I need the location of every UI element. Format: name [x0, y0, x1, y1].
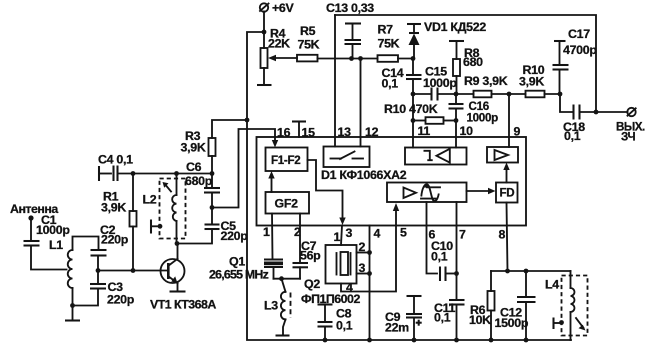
svg-text:4: 4	[374, 227, 381, 241]
Q2 pin 4 wire to pin 5	[341, 226, 396, 295]
wire supply rail left/down to bottom rail	[247, 32, 571, 340]
wire pin 7	[456, 202, 458, 300]
capacitor C4	[98, 153, 133, 182]
svg-text:15: 15	[302, 126, 316, 140]
wire R5 to R7	[318, 58, 378, 60]
arrow into F1-F2 pin16	[272, 140, 278, 148]
node pin4 rail	[367, 338, 372, 343]
svg-text:VD1 КД522: VD1 КД522	[424, 20, 486, 34]
wire detector output row	[491, 270, 571, 272]
node L1 bottom	[70, 303, 75, 308]
wire pin 1 to quartz	[271, 214, 274, 260]
svg-text:9: 9	[514, 125, 521, 139]
node C13 junction	[349, 56, 354, 61]
block FD	[496, 183, 518, 203]
svg-text:10: 10	[460, 124, 474, 138]
svg-text:C13 0,33: C13 0,33	[326, 1, 374, 15]
svg-text:R7: R7	[378, 23, 394, 37]
svg-text:26,655 MHz: 26,655 MHz	[209, 268, 269, 282]
block F1-F2	[266, 148, 308, 172]
node C2/C3	[96, 268, 101, 273]
wire F1-F2 to pin 3	[308, 160, 346, 225]
svg-text:22m: 22m	[385, 321, 409, 335]
capacitor C2	[91, 223, 129, 271]
svg-text:ЗЧ: ЗЧ	[621, 131, 636, 144]
svg-text:D1 КФ1066ХА2: D1 КФ1066ХА2	[321, 168, 407, 182]
node supply	[262, 30, 267, 35]
capacitor C14	[382, 59, 422, 95]
node R3/C6	[210, 171, 215, 176]
capacitor C10	[431, 239, 457, 281]
inductor L1	[49, 237, 99, 306]
svg-text:1000p: 1000p	[36, 223, 70, 237]
Q2 pin 3 wire	[357, 261, 370, 275]
capacitor C1	[24, 213, 71, 270]
svg-text:Q1: Q1	[229, 255, 245, 269]
svg-text:16: 16	[277, 126, 291, 140]
capacitor C9	[385, 296, 422, 340]
svg-text:22K: 22K	[268, 37, 290, 51]
node pin12 junction	[358, 56, 363, 61]
node pin11	[411, 118, 416, 123]
arrow FD to output amp	[503, 163, 509, 183]
svg-text:0,1: 0,1	[382, 77, 399, 91]
svg-text:0,1: 0,1	[434, 311, 451, 325]
svg-text:1500p: 1500p	[495, 316, 529, 330]
node C14/C15	[411, 92, 416, 97]
node pin8	[505, 269, 510, 274]
node C8 on rail	[323, 338, 328, 343]
svg-text:3,9K: 3,9K	[519, 75, 544, 89]
wire base line	[98, 270, 168, 272]
svg-text:C6: C6	[186, 160, 202, 174]
svg-text:3: 3	[346, 226, 353, 240]
wire pin 10	[455, 121, 457, 148]
wire R7 to VD1 node	[398, 58, 413, 60]
terminal output AF	[596, 108, 645, 144]
capacitor C15	[413, 65, 457, 101]
node Q2 pin2	[367, 250, 372, 255]
svg-text:R10 470K: R10 470K	[384, 102, 438, 116]
node C9 rail	[412, 338, 417, 343]
node C11 rail	[454, 338, 459, 343]
svg-text:12: 12	[365, 125, 379, 139]
resistor R3	[181, 120, 248, 174]
svg-text:220p: 220p	[107, 293, 135, 307]
svg-text:L2: L2	[143, 193, 157, 207]
quartz Q1	[209, 255, 283, 282]
pin 15 stub	[292, 122, 315, 140]
node C12 top	[524, 269, 529, 274]
svg-text:1000p: 1000p	[467, 112, 499, 125]
capacitor C12	[495, 271, 536, 340]
svg-text:4: 4	[346, 281, 353, 295]
node pin9	[507, 92, 512, 97]
resistor R5	[297, 24, 320, 61]
svg-text:1: 1	[334, 230, 341, 244]
svg-text:3,9K: 3,9K	[101, 201, 126, 215]
svg-text:3: 3	[359, 261, 366, 275]
wire pin 8	[507, 203, 508, 272]
diode VD1	[407, 20, 486, 59]
capacitor C16	[449, 94, 499, 125]
inductor L2	[143, 174, 186, 244]
svg-text:VT1 КТ368А: VT1 КТ368А	[150, 298, 216, 312]
svg-text:C4 0,1: C4 0,1	[98, 153, 133, 167]
wiper arrow into R4	[268, 55, 297, 61]
resistor R6	[469, 271, 495, 340]
svg-text:680: 680	[463, 55, 483, 69]
capacitor C8	[318, 305, 353, 341]
svg-text:2: 2	[359, 240, 366, 254]
filter Q2	[301, 245, 360, 306]
block IF amp with limiter symbol	[387, 183, 467, 203]
node collector	[175, 241, 180, 246]
wire C4 node to L2 node	[133, 173, 212, 175]
wire pin 12	[360, 59, 362, 147]
wire pin 9	[508, 94, 510, 147]
capacitor C18	[560, 94, 596, 143]
node C17	[558, 92, 563, 97]
arrow amp to FD	[467, 188, 496, 194]
output top rail	[335, 15, 596, 112]
antenna terminal	[10, 202, 58, 221]
svg-text:3,9K: 3,9K	[181, 141, 206, 155]
terminal +6V	[260, 1, 295, 15]
wire rail-left down to pin 13	[334, 15, 336, 147]
capacitor C11	[434, 300, 465, 340]
node R3 tap on supply line	[245, 118, 250, 123]
svg-text:+6V: +6V	[272, 1, 295, 15]
svg-text:L4: L4	[545, 278, 559, 292]
svg-text:8: 8	[499, 228, 506, 242]
node C6/C5	[210, 205, 215, 210]
wire quartz/C7 bottom	[274, 278, 301, 280]
resistor R9	[456, 74, 509, 97]
svg-text:5: 5	[400, 226, 407, 240]
ground under L1/C3	[65, 306, 80, 321]
wire +6V down to node	[263, 12, 265, 33]
wire pin 11	[412, 121, 414, 148]
resistor R10 3,9K	[509, 63, 560, 97]
svg-text:0,1: 0,1	[431, 250, 448, 264]
arrow GF2 to F1-F2	[268, 171, 274, 192]
capacitor C7	[293, 239, 322, 279]
svg-text:75K: 75K	[378, 37, 400, 51]
svg-text:1000p: 1000p	[423, 76, 457, 90]
resistor R10 470K	[384, 94, 456, 124]
capacitor C6	[185, 160, 220, 208]
svg-text:0,1: 0,1	[564, 129, 581, 143]
svg-text:10K: 10K	[469, 313, 491, 327]
node output	[594, 110, 599, 115]
svg-text:220p: 220p	[101, 233, 129, 247]
wire C6 node to pin 16	[212, 129, 275, 208]
capacitor C17	[553, 27, 598, 94]
node C12 rail	[524, 338, 529, 343]
wire pin 6 to C10	[427, 202, 438, 274]
svg-text:4700p: 4700p	[563, 43, 597, 57]
svg-text:F1-F2: F1-F2	[271, 154, 300, 167]
wire pin 4 vertical	[369, 226, 371, 341]
node C15/R8	[454, 92, 459, 97]
block GF2	[266, 192, 310, 214]
Q2 pin 2 wire	[357, 240, 370, 254]
block limiter amp (pins 11,10)	[405, 148, 467, 165]
node R1 bottom	[131, 268, 136, 273]
svg-text:GF2: GF2	[275, 197, 299, 211]
ground under VT1 emitter	[170, 290, 186, 292]
node L2 top	[174, 171, 179, 176]
inductor L3	[264, 279, 291, 335]
capacitor C3	[73, 271, 135, 307]
capacitor C5	[177, 208, 248, 244]
svg-text:11: 11	[418, 124, 431, 138]
node R6 rail	[489, 338, 494, 343]
svg-text:13: 13	[338, 125, 352, 139]
svg-text:R5: R5	[300, 24, 316, 38]
IC D1 box	[257, 137, 527, 226]
capacitor C13	[326, 1, 374, 59]
node C10/pin7	[454, 271, 459, 276]
svg-text:680p: 680p	[185, 174, 213, 188]
resistor R1	[101, 174, 137, 271]
svg-text:L3: L3	[264, 299, 278, 313]
resistor R7	[378, 23, 400, 62]
transistor VT1	[150, 244, 216, 312]
wire pin 2 to C7	[299, 214, 301, 263]
ground under R4	[257, 84, 272, 86]
wire pin 3 to Q2	[341, 226, 342, 246]
svg-text:220p: 220p	[221, 229, 249, 243]
svg-text:0,1: 0,1	[336, 319, 353, 333]
svg-text:7: 7	[459, 228, 466, 242]
ground under L3	[276, 334, 290, 336]
svg-text:75K: 75K	[298, 38, 320, 52]
node VD1/C14	[411, 56, 416, 61]
resistor R4	[261, 27, 291, 85]
svg-text:Q2: Q2	[304, 277, 320, 291]
inductor L4	[545, 271, 588, 340]
svg-text:C17: C17	[568, 27, 590, 41]
svg-text:L1: L1	[49, 238, 63, 252]
node pin10	[454, 118, 459, 123]
svg-text:56p: 56p	[300, 249, 321, 263]
block output amp (pin 9)	[487, 147, 518, 163]
svg-text:FD: FD	[500, 187, 515, 200]
resistor R8	[449, 41, 483, 94]
svg-text:R9 3,9K: R9 3,9K	[464, 74, 508, 88]
node R1 top	[131, 171, 136, 176]
node L3 top	[279, 276, 284, 281]
node Q2 pin3	[367, 271, 372, 276]
wire pin 5 arrow into amp	[393, 203, 399, 226]
svg-text:1: 1	[263, 225, 270, 239]
block switch (pins 13,12)	[324, 147, 370, 168]
